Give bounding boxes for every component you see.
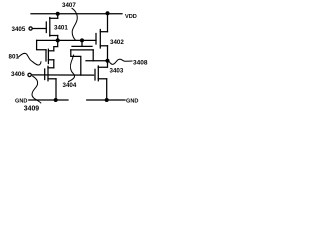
wire VDD rail <box>31 13 122 15</box>
leader 3407 to node A <box>72 8 77 40</box>
wire 3404 left stub down to 3406 line <box>71 50 81 75</box>
transistor 3403 <box>95 66 107 81</box>
wire lower middle source down to GND <box>55 79 57 100</box>
transistor lower middle <box>45 66 56 81</box>
svg-text:3405: 3405 <box>12 26 26 33</box>
transistor 3402 <box>96 30 108 49</box>
svg-text:3401: 3401 <box>54 25 68 32</box>
background <box>0 0 151 120</box>
wire 3402 source down through node B to 3403 drain <box>98 46 107 68</box>
wire 801 source to 3404L drain <box>53 60 55 68</box>
svg-text:3409: 3409 <box>24 105 39 112</box>
transistor 801 upper middle <box>46 49 54 63</box>
leader 801 squiggle <box>19 53 42 65</box>
node B wire <box>86 60 108 62</box>
svg-text:801: 801 <box>9 53 20 60</box>
leader 3408 squiggle <box>110 59 133 64</box>
node dot GND left <box>54 98 58 102</box>
GND rail right <box>87 99 125 101</box>
wire node A jog down to 801 drain <box>54 40 58 50</box>
node dot A at 3401 source <box>56 38 60 42</box>
node dot on VDD rail left <box>56 12 60 16</box>
svg-text:GND: GND <box>15 99 27 105</box>
terminal 3406 <box>28 73 31 76</box>
wire gate lead 3405 to 3401 <box>32 28 46 30</box>
leader 3409 S-curve <box>32 76 41 103</box>
node A wire 3407 <box>37 39 96 41</box>
svg-text:3404: 3404 <box>63 82 77 89</box>
svg-text:3406: 3406 <box>11 71 25 78</box>
wire node A staircase to gate of 801 <box>37 40 46 49</box>
svg-text:3402: 3402 <box>110 39 124 46</box>
svg-text:3407: 3407 <box>62 2 76 9</box>
transistor 3404 horizontal pass <box>71 40 93 50</box>
node dot on VDD rail right <box>106 11 110 15</box>
node dot GND right <box>105 98 109 102</box>
node dot B <box>106 59 110 63</box>
svg-text:3408: 3408 <box>133 59 148 66</box>
wire 3404 right stub down to node B <box>92 50 94 61</box>
wire 3403 source down to GND right <box>106 79 108 100</box>
svg-text:GND: GND <box>126 98 138 104</box>
svg-text:3403: 3403 <box>110 68 124 75</box>
wire 3406 to gates of lower transistor and 3403 <box>31 74 93 76</box>
transistor 3401 <box>46 14 57 41</box>
svg-text:VDD: VDD <box>125 14 137 20</box>
terminal 3405 <box>29 27 32 30</box>
GND rail left <box>29 99 68 101</box>
node dot A branch to 3404 gate <box>80 38 84 42</box>
wire 3402 drain up to VDD <box>107 14 109 32</box>
leader 3404 <box>69 55 75 82</box>
